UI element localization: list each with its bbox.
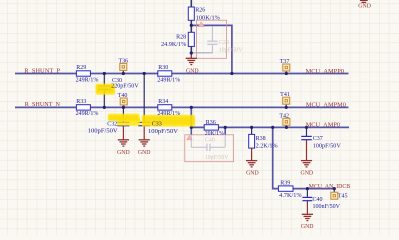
- wire stub to ghost C40 left: [190, 127, 192, 134]
- svg-text:R33: R33: [76, 99, 86, 105]
- svg-text:R28: R28: [176, 35, 186, 41]
- svg-text:GND: GND: [117, 150, 130, 156]
- junction IDCB/C40: [306, 187, 309, 190]
- resistor R30: [158, 71, 172, 76]
- junction N/C32-T40: [122, 106, 125, 109]
- highlight mark over C33 and node: [142, 115, 196, 127]
- wire R38 to ground: [251, 148, 253, 161]
- svg-text:24.9K/1%: 24.9K/1%: [161, 42, 186, 48]
- svg-text:249R/1%: 249R/1%: [157, 77, 180, 83]
- wire R_SHUNT_P line (P net): [15, 73, 349, 75]
- wire R28 to ground node: [190, 46, 192, 53]
- svg-text:R39: R39: [280, 181, 290, 187]
- resistor R36: [204, 125, 218, 130]
- svg-text:100pF/50V: 100pF/50V: [313, 143, 342, 149]
- junction AMP0/C37: [305, 126, 308, 129]
- svg-text:249R/1%: 249R/1%: [76, 111, 99, 117]
- svg-text:249R/1%: 249R/1%: [76, 77, 99, 83]
- junction N/T41: [285, 106, 288, 109]
- svg-text:T41: T41: [280, 92, 290, 98]
- svg-text:MCU_AMPP0: MCU_AMPP0: [306, 68, 345, 75]
- svg-text:R30: R30: [158, 65, 168, 71]
- junction AMP0/R39 drop: [271, 126, 274, 129]
- highlight mark over C30: [96, 84, 116, 95]
- svg-text:T36: T36: [118, 58, 128, 64]
- capacitor C33: [138, 121, 150, 123]
- svg-text:C40: C40: [205, 137, 215, 143]
- wire C30 lower pin: [103, 89, 105, 107]
- wire C40 to ground: [306, 201, 308, 215]
- junction AMP0/R38: [250, 126, 253, 129]
- resistor R38: [249, 134, 255, 148]
- junction AMP0/ghost right: [224, 126, 227, 129]
- junction N/C30: [103, 106, 106, 109]
- test point T36: [120, 63, 127, 70]
- capacitor C30: [98, 85, 110, 87]
- svg-text:GND: GND: [246, 171, 259, 177]
- svg-text:C40: C40: [313, 197, 323, 203]
- wire T36 stub: [122, 70, 124, 73]
- wire C33 pin from P line crossing N: [143, 74, 145, 123]
- svg-text:R29: R29: [76, 65, 86, 71]
- capacitor C32: [117, 121, 129, 123]
- svg-text:R38: R38: [256, 136, 266, 142]
- ground below C33: [139, 139, 150, 141]
- svg-text:MCU_AMPM0: MCU_AMPM0: [306, 102, 347, 109]
- ground below C40: [302, 213, 313, 215]
- wire C32 pin from N line: [122, 107, 124, 122]
- wire stub to ghost C40 right: [224, 127, 226, 134]
- wire C32 to ground: [122, 126, 124, 140]
- svg-text:C32: C32: [107, 122, 117, 128]
- ground below R38: [246, 160, 257, 162]
- wire R_SHUNT_N line (N net): [15, 106, 349, 108]
- wire MCU_AMP0 line with drop from N line: [191, 107, 349, 127]
- test point T37: [283, 64, 290, 71]
- ghost capacitor C40dim right lead: [224, 135, 226, 147]
- resistor R29: [76, 71, 90, 76]
- ghost wire C40dim right horizontal: [210, 146, 225, 148]
- ground below R28: [186, 57, 197, 59]
- svg-text:GND: GND: [358, 4, 371, 10]
- mask marker triangle C40dim: [187, 135, 193, 140]
- wire MCU_AN_IDCB line with drop from AMP0: [273, 127, 335, 188]
- wire divider branch to P line: [191, 25, 232, 73]
- junction P/T37: [285, 72, 288, 75]
- svg-text:100pF/50V: 100pF/50V: [148, 129, 179, 135]
- test point T45: [331, 192, 338, 199]
- svg-text:R_SHUNT_P: R_SHUNT_P: [24, 68, 60, 75]
- wire C40 pin from IDCB line: [306, 189, 308, 198]
- resistor R26: [188, 7, 194, 20]
- capacitor C37: [301, 135, 312, 137]
- ghost wire C29 to R28 node: [192, 52, 213, 54]
- svg-text:220pF/50V: 220pF/50V: [111, 84, 139, 90]
- svg-text:GND: GND: [301, 224, 314, 230]
- svg-text:MCU_AMP0: MCU_AMP0: [306, 122, 341, 129]
- ghost capacitor C40dim left lead: [190, 135, 192, 147]
- svg-text:T40: T40: [118, 93, 128, 99]
- junction P/divider: [230, 72, 233, 75]
- ground below C37: [301, 160, 312, 162]
- wire divider top feed: [190, 0, 192, 7]
- svg-text:R36: R36: [206, 120, 216, 126]
- wire R28 ground stub: [190, 53, 192, 58]
- svg-text:C29: C29: [219, 40, 229, 46]
- svg-text:T37: T37: [280, 59, 290, 65]
- svg-text:C33: C33: [152, 122, 162, 128]
- wire T45 stub: [333, 189, 335, 193]
- ground top right (cropped): [360, 0, 368, 1]
- svg-text:100pF/50V: 100pF/50V: [88, 128, 119, 134]
- svg-text:100K/1%: 100K/1%: [196, 15, 220, 21]
- junction P/C33: [143, 72, 146, 75]
- svg-text:MCU_AN_IDCB: MCU_AN_IDCB: [309, 183, 351, 190]
- junction AMP0/T42: [285, 126, 288, 129]
- junction AMP0 corner: [190, 126, 193, 129]
- mask box around C40dim: [185, 135, 234, 162]
- svg-text:10pF/50V: 10pF/50V: [219, 48, 243, 54]
- capacitor C40: [302, 196, 312, 198]
- wire R26-R28 link: [190, 20, 192, 32]
- svg-text:GND: GND: [138, 150, 151, 156]
- wire T40 stub: [123, 105, 125, 107]
- svg-text:4.7K/1%: 4.7K/1%: [279, 193, 301, 199]
- test point T42: [283, 118, 290, 125]
- junction P/C30: [103, 72, 106, 75]
- svg-text:GND: GND: [301, 171, 314, 177]
- test point T41: [283, 97, 290, 104]
- resistor R28: [188, 32, 194, 46]
- ghost wire C40dim left horizontal: [191, 146, 206, 148]
- highlight mark over C32: [108, 114, 140, 121]
- test point T40: [120, 98, 127, 105]
- svg-text:R34: R34: [158, 99, 168, 105]
- ghost capacitor C29 lower lead: [211, 45, 213, 53]
- ghost capacitor C29 plates: [207, 40, 217, 42]
- svg-text:20K/1%: 20K/1%: [205, 131, 224, 137]
- svg-text:C37: C37: [313, 136, 323, 142]
- svg-text:249R/1%: 249R/1%: [157, 111, 180, 117]
- svg-text:R_SHUNT_N: R_SHUNT_N: [25, 101, 60, 108]
- svg-text:T42: T42: [279, 113, 289, 119]
- svg-text:2.2K/1%: 2.2K/1%: [256, 144, 278, 150]
- ghost capacitor C40dim plates: [206, 144, 208, 151]
- svg-text:R26: R26: [195, 8, 205, 14]
- svg-text:GND: GND: [186, 68, 199, 74]
- mask box around C29: [196, 20, 226, 58]
- wire T42 stub: [285, 125, 287, 127]
- wire T41 stub: [285, 104, 287, 107]
- junction divider bottom: [190, 51, 193, 54]
- wire C37 pin from AMP0 line: [306, 127, 308, 136]
- junction IDCB/T45: [333, 187, 336, 190]
- resistor R34: [158, 105, 172, 110]
- ghost capacitor C29 upper lead: [211, 27, 213, 41]
- wire C30 upper pin: [103, 74, 105, 87]
- junction P/T36: [122, 72, 125, 75]
- wire T37 stub: [285, 71, 287, 74]
- junction divider top: [190, 24, 193, 27]
- junction N/R36 branch: [190, 106, 193, 109]
- resistor R39: [278, 186, 293, 191]
- mask marker triangle C29: [198, 22, 204, 27]
- wire C37 to ground: [306, 140, 308, 161]
- wire R38 pin from AMP0 line: [251, 127, 253, 134]
- ground below C32: [118, 139, 129, 141]
- wire C33 to ground: [143, 126, 145, 140]
- svg-text:10pF/50V: 10pF/50V: [205, 155, 229, 161]
- svg-text:100nF/50V: 100nF/50V: [313, 204, 341, 210]
- svg-text:T45: T45: [338, 193, 348, 199]
- resistor R33: [76, 105, 90, 110]
